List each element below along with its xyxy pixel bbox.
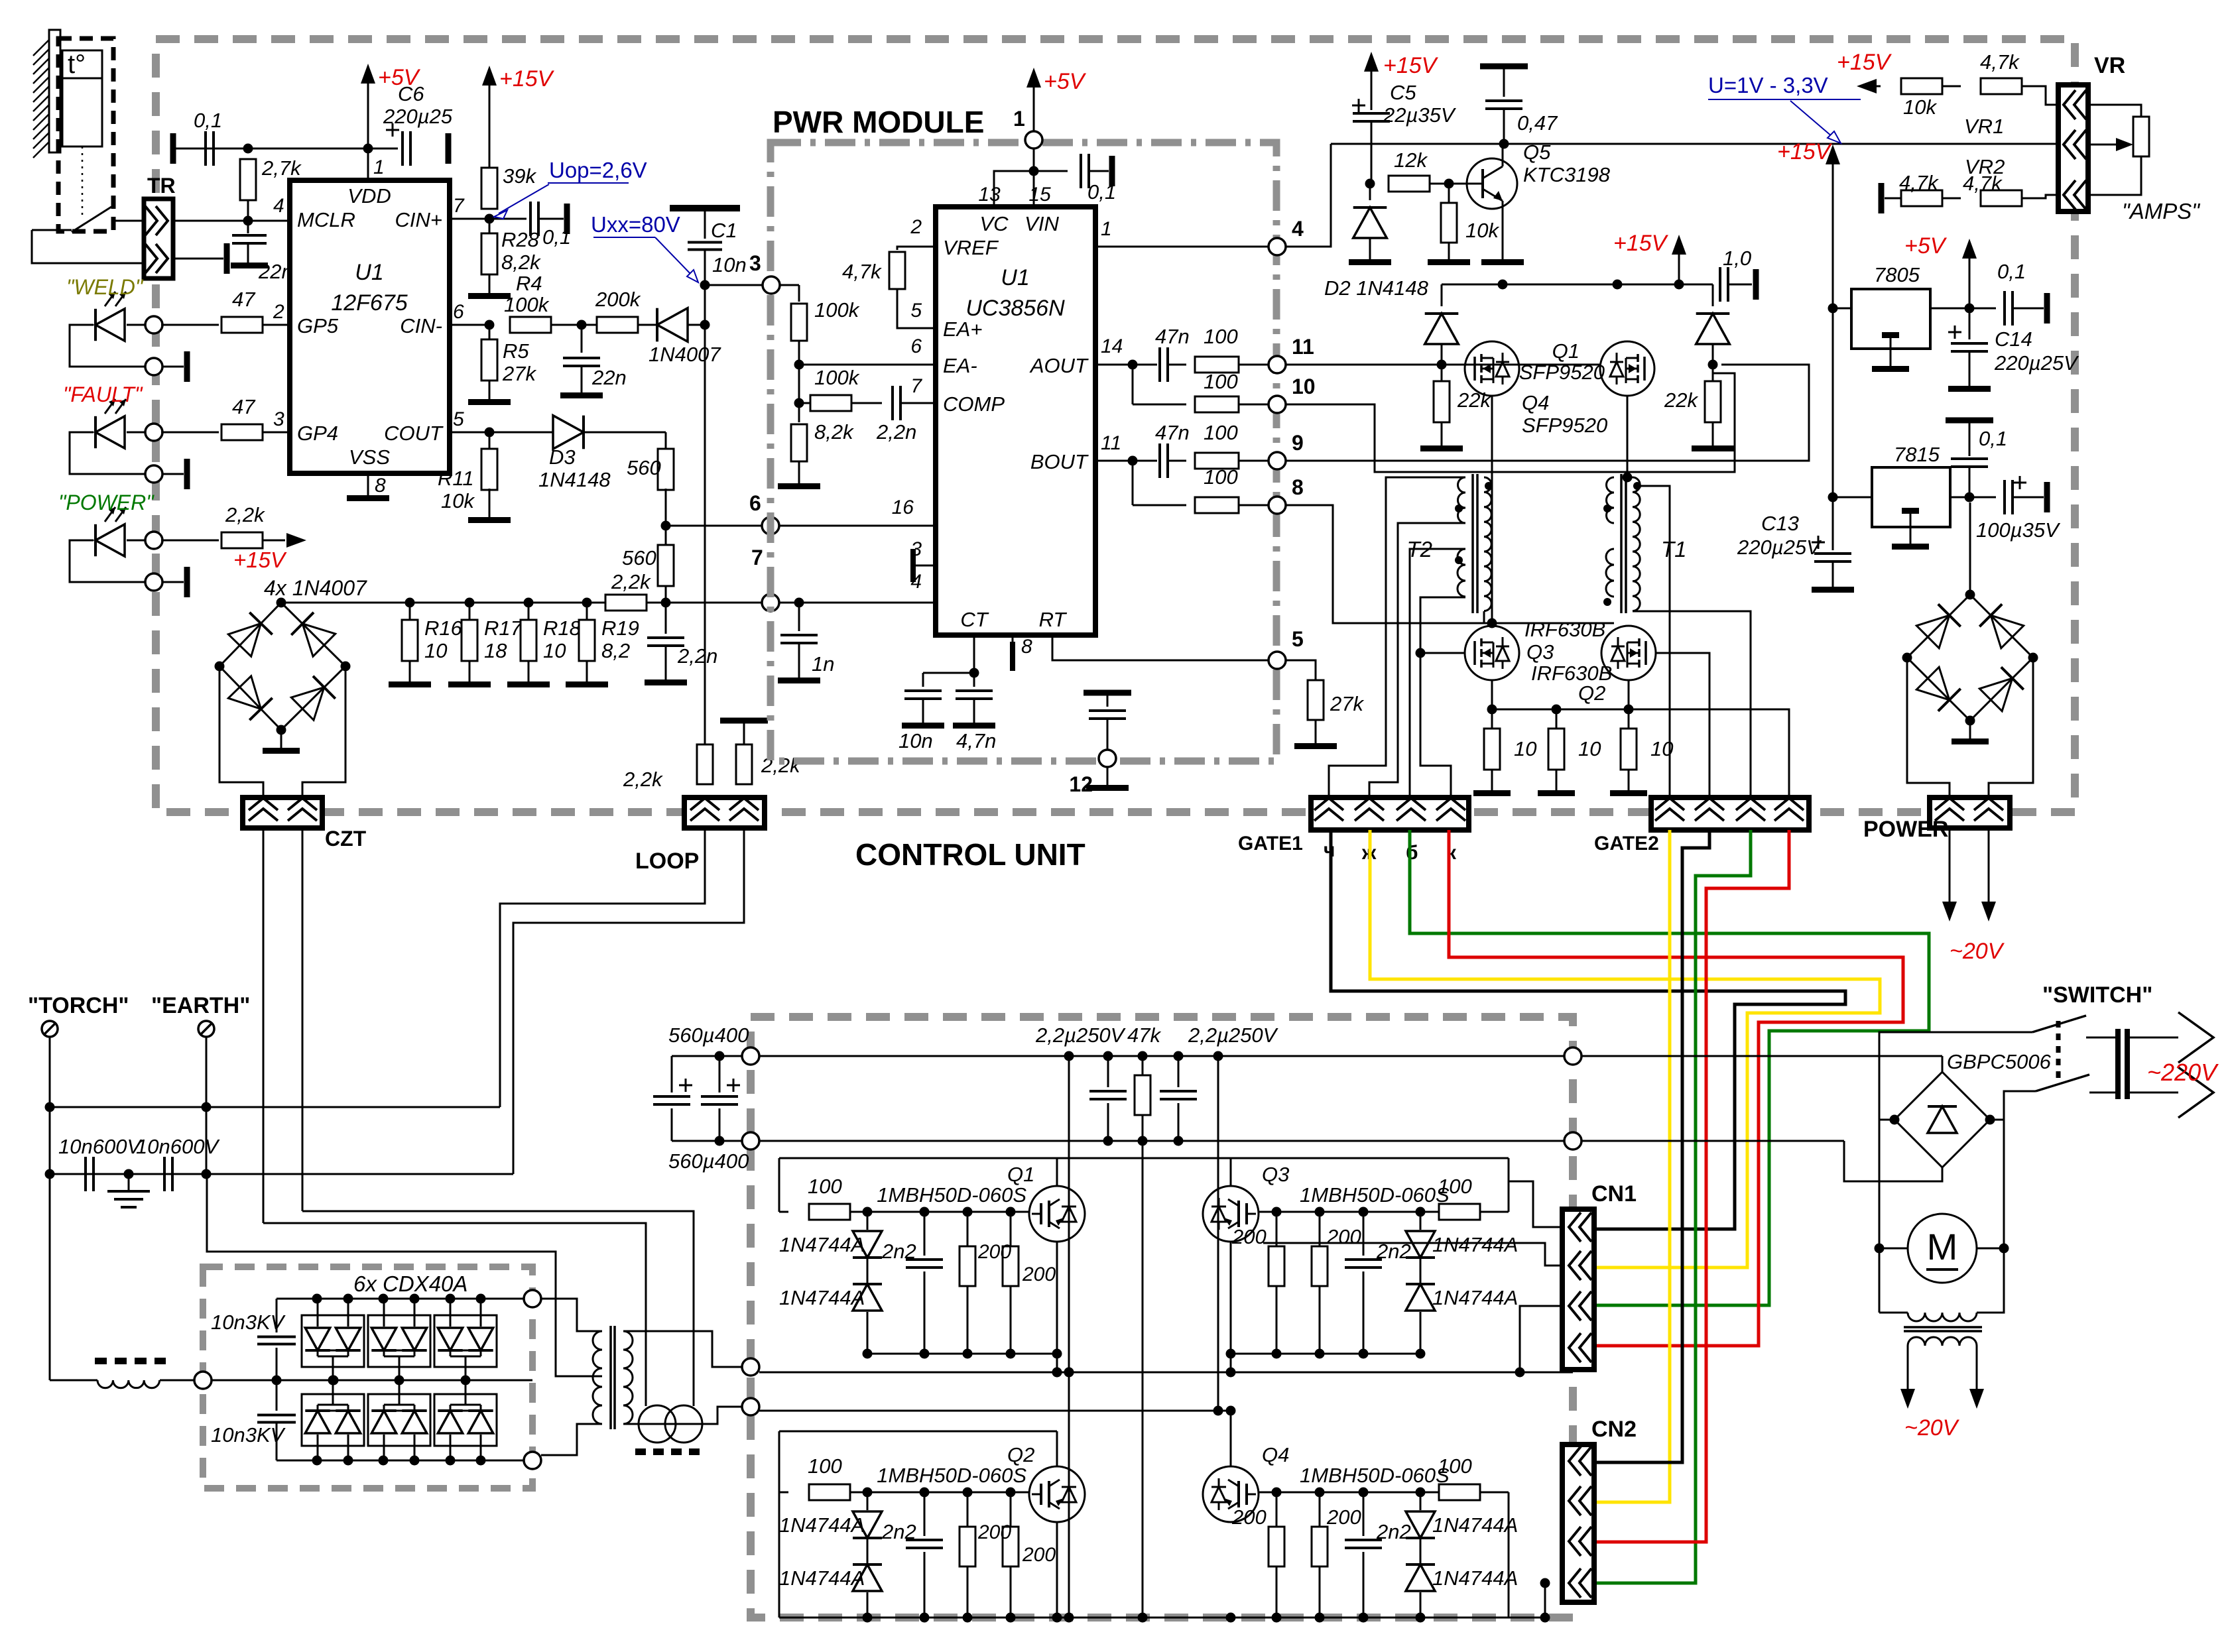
resistor 47 GP5 bbox=[161, 288, 290, 333]
motor M bbox=[1908, 1214, 1977, 1283]
svg-text:200: 200 bbox=[1022, 1544, 1056, 1566]
czt ct wires bbox=[263, 1211, 694, 1406]
wire VDD bbox=[368, 148, 385, 180]
potentiometer AMPS bbox=[2088, 105, 2149, 195]
+5V arrow bbox=[361, 64, 421, 148]
svg-text:1N4744A: 1N4744A bbox=[779, 1233, 865, 1256]
wire 7815 in bbox=[1833, 497, 1872, 499]
svg-text:100: 100 bbox=[1204, 325, 1238, 348]
capacitor 2n2 Q2 bbox=[881, 1492, 943, 1618]
terminal 1 top bbox=[1013, 107, 1042, 148]
connector LOOP bbox=[635, 797, 765, 874]
resistor 10 c bbox=[1610, 709, 1673, 796]
terminal 7 bbox=[751, 546, 779, 611]
cap 10n3KV top bbox=[211, 1299, 296, 1380]
connector CN1 bbox=[1562, 1181, 1637, 1370]
svg-text:100µ35V: 100µ35V bbox=[1976, 518, 2061, 542]
Q5 collector bbox=[1499, 139, 1509, 167]
text ~20V right bbox=[1950, 939, 2005, 964]
svg-text:R28: R28 bbox=[501, 228, 540, 251]
ground bar TR pin2 bbox=[224, 243, 230, 274]
power bridge wire top bbox=[1965, 497, 1975, 600]
resistor R5 27k bbox=[481, 325, 536, 385]
svg-text:560µ400: 560µ400 bbox=[668, 1150, 749, 1173]
pin VREF label bbox=[910, 216, 999, 259]
svg-text:1N4007: 1N4007 bbox=[649, 343, 721, 366]
IC U1 UC3856N box bbox=[936, 207, 1095, 635]
svg-text:D2 1N4148: D2 1N4148 bbox=[1324, 276, 1429, 300]
svg-text:100: 100 bbox=[1438, 1454, 1472, 1478]
diode D2 1N4148 bbox=[1324, 184, 1429, 300]
svg-text:10: 10 bbox=[1514, 737, 1536, 760]
capacitor 2,2n CS bbox=[645, 603, 717, 685]
svg-text:U1: U1 bbox=[1001, 265, 1029, 290]
power out arrows bbox=[1942, 828, 1996, 921]
capacitor 0,1 VIN bbox=[1034, 154, 1116, 204]
svg-text:2n2: 2n2 bbox=[881, 1520, 916, 1543]
svg-text:AOUT: AOUT bbox=[1029, 354, 1089, 377]
terminal 12 bbox=[1069, 690, 1131, 797]
bridge diode d2 bbox=[291, 613, 335, 656]
resistor 200 Q2b bbox=[977, 1492, 1056, 1618]
transistor Q1 SFP9520 bbox=[1600, 341, 1654, 396]
svg-text:POWER: POWER bbox=[1863, 817, 1948, 842]
wire COUT bbox=[450, 428, 504, 438]
svg-text:0,1: 0,1 bbox=[194, 109, 222, 132]
terminal low bbox=[742, 1398, 759, 1415]
svg-text:1MBH50D-060S: 1MBH50D-060S bbox=[1300, 1183, 1450, 1207]
text 22n bbox=[258, 260, 293, 283]
wire TR pin2 to ground bbox=[173, 258, 223, 260]
svg-text:TR: TR bbox=[147, 174, 176, 198]
svg-text:14: 14 bbox=[1101, 335, 1123, 357]
wire gate2 green bbox=[1594, 830, 1751, 1583]
wire TR pin1 to MCLR bbox=[173, 216, 290, 226]
pin MCLR label bbox=[273, 195, 355, 231]
current transformer core dash bbox=[635, 1448, 706, 1455]
vertical bus c bbox=[1213, 1056, 1223, 1416]
svg-text:Q4: Q4 bbox=[1522, 391, 1549, 414]
svg-text:2: 2 bbox=[273, 301, 284, 323]
svg-text:1: 1 bbox=[373, 156, 385, 178]
control unit dashed border bbox=[156, 39, 2075, 812]
svg-text:MCLR: MCLR bbox=[297, 208, 355, 231]
svg-text:R4: R4 bbox=[516, 272, 542, 295]
svg-text:+15V: +15V bbox=[233, 548, 287, 572]
Q3 source rail bbox=[1487, 680, 1634, 715]
resistor R28 8,2k bbox=[481, 219, 541, 274]
annotation Uxx bbox=[591, 212, 698, 282]
svg-text:7: 7 bbox=[751, 546, 763, 569]
vertical bus b bbox=[1138, 1141, 1148, 1623]
svg-text:11: 11 bbox=[1292, 335, 1314, 359]
switch blade lower bbox=[2036, 1075, 2115, 1092]
gate2 feed 2 bbox=[1597, 508, 1709, 797]
IGBT Q3 1MBH50D-060S bbox=[1203, 1163, 1450, 1242]
pin COUT label bbox=[384, 408, 464, 445]
text ~220V bbox=[2147, 1059, 2219, 1086]
pin 1 right bbox=[1101, 218, 1112, 240]
Q4 drain to T2 bbox=[1487, 396, 1497, 628]
wire Uxx to terminal 3 bbox=[705, 284, 763, 286]
svg-text:7805: 7805 bbox=[1874, 263, 1920, 286]
LED FAULT terminal top bbox=[145, 424, 162, 441]
fan transformer secondary bbox=[1908, 1337, 1977, 1395]
svg-text:1N4148: 1N4148 bbox=[538, 468, 611, 491]
plug arrow top bbox=[2130, 1012, 2213, 1063]
svg-text:100k: 100k bbox=[504, 293, 550, 316]
svg-text:t°: t° bbox=[68, 50, 86, 79]
switch feed right bbox=[1990, 1091, 2036, 1120]
svg-text:200: 200 bbox=[1231, 1225, 1267, 1248]
capacitor 10n600V b bbox=[136, 1135, 220, 1191]
svg-text:8,2k: 8,2k bbox=[501, 251, 541, 274]
svg-text:SFP9520: SFP9520 bbox=[1522, 414, 1607, 437]
svg-text:10: 10 bbox=[1578, 737, 1601, 760]
resistor 4,7k VREF bbox=[842, 247, 936, 328]
bridge ground bbox=[263, 730, 300, 754]
svg-text:0,47: 0,47 bbox=[1517, 111, 1558, 135]
BOUT node bbox=[1095, 456, 1157, 466]
svg-text:13: 13 bbox=[978, 184, 1001, 206]
transistor Q4 SFP9520 bbox=[1465, 341, 1519, 396]
capacitor 100u35V bbox=[1976, 476, 2061, 542]
bottom rail extension dots bbox=[1064, 1368, 1074, 1378]
capacitor 1n bbox=[778, 603, 834, 683]
svg-text:C13: C13 bbox=[1761, 512, 1799, 535]
svg-text:39k: 39k bbox=[503, 164, 536, 188]
cdx40a input circle bbox=[194, 1372, 212, 1389]
IC U1 text bbox=[331, 260, 407, 316]
svg-text:4: 4 bbox=[273, 195, 284, 217]
svg-text:U=1V - 3,3V: U=1V - 3,3V bbox=[1708, 73, 1828, 97]
hf transformer secondary bbox=[623, 1331, 742, 1424]
terminal 3 left bbox=[749, 251, 780, 294]
zener 1N4744A d1 bbox=[1406, 1492, 1518, 1538]
svg-text:C5: C5 bbox=[1390, 81, 1416, 104]
capacitor 2,2u250V a bbox=[1035, 1024, 1127, 1141]
pin AOUT label bbox=[1029, 335, 1123, 377]
text Q4 bbox=[1522, 391, 1607, 437]
wire sensor loop lower bbox=[32, 230, 144, 263]
svg-text:3: 3 bbox=[749, 251, 761, 275]
pin EA+ label bbox=[910, 300, 982, 341]
GBPC5006 inner diode bbox=[1928, 1097, 1957, 1133]
ground R28 bbox=[468, 274, 511, 299]
svg-text:Q3: Q3 bbox=[1262, 1163, 1289, 1186]
thermostat dashed box bbox=[58, 38, 113, 231]
svg-text:7: 7 bbox=[453, 195, 465, 217]
Q3 collector loop bbox=[1508, 1158, 1510, 1212]
connector GATE1 bbox=[1238, 797, 1469, 855]
resistor 200 Q1a bbox=[960, 1212, 975, 1354]
zener 1N4744A b2 bbox=[1406, 1259, 1518, 1354]
pwr module border bbox=[771, 143, 1276, 761]
svg-text:"POWER": "POWER" bbox=[58, 491, 155, 514]
svg-text:10k: 10k bbox=[441, 489, 475, 512]
svg-text:R18: R18 bbox=[543, 617, 582, 640]
svg-text:1: 1 bbox=[1013, 107, 1025, 131]
svg-text:RT: RT bbox=[1039, 608, 1068, 631]
rail lower caps bbox=[50, 1173, 513, 1175]
pin EA- label bbox=[910, 335, 977, 377]
svg-text:~220V: ~220V bbox=[2147, 1059, 2219, 1086]
svg-text:2,2k: 2,2k bbox=[611, 570, 651, 593]
capacitor 22n under MCLR bbox=[232, 221, 267, 263]
pin VDD label bbox=[347, 184, 391, 207]
pin CIN+ label bbox=[395, 195, 465, 231]
svg-text:9: 9 bbox=[1292, 431, 1304, 455]
resistor 200k bbox=[595, 288, 641, 333]
power bridge diode 3 bbox=[1916, 667, 1960, 711]
svg-text:8: 8 bbox=[375, 475, 386, 497]
cn1 pin1 wire bbox=[1509, 1181, 1562, 1227]
svg-text:"SWITCH": "SWITCH" bbox=[2042, 982, 2152, 1008]
capacitor C13 220u25V bbox=[1737, 512, 1854, 593]
diode clamp right bbox=[1696, 284, 1730, 365]
svg-text:12k: 12k bbox=[1394, 148, 1428, 172]
svg-text:200: 200 bbox=[1326, 1505, 1361, 1529]
thermostat dotted link bbox=[82, 147, 84, 219]
svg-text:5: 5 bbox=[1292, 627, 1304, 651]
svg-text:VR: VR bbox=[2094, 53, 2125, 78]
chassis ground bbox=[107, 1169, 150, 1208]
wire 9 loop bbox=[1286, 365, 1809, 461]
terminal mid out bbox=[742, 1358, 759, 1376]
terminal 10 bbox=[1269, 375, 1316, 413]
pin VSS label bbox=[349, 445, 390, 469]
regulator 7815 bbox=[1872, 443, 1950, 550]
wire D3 to 560 chain bbox=[584, 432, 666, 449]
svg-text:560: 560 bbox=[627, 456, 661, 479]
wire C5 to D2 node bbox=[1365, 121, 1375, 189]
terminal bar 0,1 CIN+ bbox=[538, 204, 570, 234]
pin BOUT label bbox=[1030, 432, 1121, 473]
svg-text:8,2: 8,2 bbox=[601, 639, 630, 662]
cdx40a bottom circle bbox=[524, 1452, 541, 1469]
LED POWER wiring bbox=[70, 540, 147, 582]
resistor 4,7k VR2-a bbox=[1879, 171, 1943, 213]
svg-text:10: 10 bbox=[543, 639, 566, 662]
wire gate1 black bbox=[1331, 830, 1845, 1229]
bridge diode d3 bbox=[228, 676, 272, 720]
+15V rail vreg bbox=[1777, 139, 1840, 550]
resistor 100k EA- bbox=[791, 298, 860, 341]
switch blade upper bbox=[2032, 1016, 2115, 1037]
svg-text:Q2: Q2 bbox=[1007, 1443, 1034, 1466]
hf transformer primary bbox=[541, 1299, 602, 1455]
svg-text:47: 47 bbox=[232, 288, 256, 311]
svg-text:2,2n: 2,2n bbox=[876, 420, 916, 443]
svg-text:COUT: COUT bbox=[384, 422, 444, 445]
capacitor 2n2 Q1 bbox=[881, 1212, 943, 1354]
wire 11 to gates bbox=[1286, 360, 1718, 370]
svg-text:10n: 10n bbox=[899, 729, 933, 752]
svg-text:Q1: Q1 bbox=[1552, 339, 1580, 363]
+5V arrow vreg bbox=[1904, 233, 1977, 308]
svg-text:4x 1N4007: 4x 1N4007 bbox=[264, 576, 367, 600]
gate2 feed 1 bbox=[1614, 486, 1671, 797]
pin 8 gnd stub bbox=[1010, 635, 1032, 671]
switch gang dotted bbox=[2056, 1021, 2061, 1085]
wire Q4 gate row bbox=[1258, 1488, 1439, 1498]
CS- stub bbox=[910, 549, 936, 582]
cdx40a top circle bbox=[524, 1290, 541, 1307]
diode module top 1 bbox=[302, 1299, 364, 1386]
capacitor 0,1 5V bbox=[1997, 260, 2050, 325]
svg-text:8,2k: 8,2k bbox=[814, 420, 854, 443]
resistor 100 Q2 bbox=[779, 1454, 850, 1500]
svg-text:C1: C1 bbox=[711, 219, 737, 242]
wire top rail bbox=[175, 144, 398, 154]
LED POWER terminal top bbox=[145, 532, 162, 549]
signal wire to VR bbox=[1331, 143, 2058, 145]
zener 1N4744A c2 bbox=[779, 1539, 882, 1618]
terminal bar right C6 bbox=[446, 133, 452, 164]
svg-text:R16: R16 bbox=[424, 617, 463, 640]
diode clamp left bbox=[1425, 284, 1459, 365]
svg-text:0,1: 0,1 bbox=[1979, 427, 2007, 450]
svg-text:LOOP: LOOP bbox=[635, 849, 699, 874]
wire 560a to shutdown node bbox=[661, 489, 671, 531]
svg-text:200: 200 bbox=[1022, 1264, 1056, 1285]
capacitor 2n2 Q4 bbox=[1345, 1492, 1411, 1618]
resistor 10 b bbox=[1538, 709, 1601, 796]
560u caps rails bbox=[672, 1051, 742, 1146]
ground 8,2k bbox=[778, 461, 820, 489]
resistor 200 Q3a bbox=[1231, 1212, 1284, 1354]
svg-text:R19: R19 bbox=[601, 617, 639, 640]
terminal 11 bbox=[1269, 335, 1314, 373]
svg-text:47: 47 bbox=[232, 395, 256, 418]
pot wiper bbox=[2088, 138, 2133, 151]
T1 primary top bbox=[1627, 477, 1633, 479]
wire 12k to base bbox=[1430, 179, 1467, 189]
capacitor 47n A bbox=[1155, 325, 1190, 382]
capacitor 22n CIN- bbox=[560, 325, 627, 398]
resistor 10 a bbox=[1473, 709, 1536, 796]
resistor 200 Q4b bbox=[1312, 1492, 1361, 1618]
bridge diode d4 bbox=[291, 676, 335, 720]
earth column bbox=[202, 1037, 212, 1179]
+15V arrow POWER bbox=[233, 533, 306, 572]
row 8 wiring bbox=[1133, 461, 1269, 513]
connector CZT bbox=[243, 797, 367, 851]
svg-text:"TORCH": "TORCH" bbox=[28, 993, 129, 1018]
wire diode to Uxx rail bbox=[688, 320, 710, 330]
capacitor 1,0 bbox=[1720, 247, 1759, 302]
svg-text:4,7k: 4,7k bbox=[1899, 171, 1939, 194]
svg-text:47n: 47n bbox=[1155, 421, 1190, 444]
wire terminal 8 to T2 bbox=[1286, 505, 1484, 623]
svg-text:12F675: 12F675 bbox=[331, 290, 407, 316]
wire gate1 green bbox=[1410, 830, 1929, 1305]
bus rail top bbox=[759, 1051, 1942, 1061]
capacitor 560u400 b bbox=[668, 1056, 749, 1173]
wire CIN- to node bbox=[450, 320, 495, 330]
CT caps bbox=[899, 635, 996, 752]
svg-text:27k: 27k bbox=[1330, 692, 1364, 715]
LED WELD terminal top bbox=[145, 316, 162, 333]
svg-text:"AMPS": "AMPS" bbox=[2122, 199, 2200, 223]
pin GP5 label bbox=[273, 301, 339, 337]
Q4 collector from rail bbox=[1230, 1411, 1232, 1466]
zener 1N4744A a2 bbox=[779, 1259, 882, 1354]
svg-text:100: 100 bbox=[1204, 465, 1238, 489]
svg-text:47n: 47n bbox=[1155, 325, 1190, 348]
wire gate2 yellow bbox=[1594, 830, 1670, 1502]
resistor 4,7k VR1 bbox=[1942, 50, 2058, 138]
wire 560b to CS node bbox=[661, 585, 671, 608]
svg-text:100k: 100k bbox=[814, 366, 860, 389]
power bridge edges bbox=[1907, 595, 2033, 721]
diode module bottom 3 bbox=[434, 1380, 497, 1460]
gate2 feed 3 bbox=[1603, 560, 1751, 797]
current transformer circles bbox=[639, 1405, 702, 1443]
motor wires bbox=[1879, 1120, 2009, 1254]
wire pin1 to terminal 4 bbox=[1095, 246, 1269, 248]
plug arrow bottom bbox=[2130, 1067, 2213, 1118]
text ~20V fan bbox=[1904, 1415, 1960, 1441]
IGBT Q4 1MBH50D-060S bbox=[1203, 1443, 1450, 1522]
svg-text:VR1: VR1 bbox=[1964, 115, 2004, 138]
Q3 cell bottom rail bbox=[1231, 1349, 1426, 1359]
IGBT Q1 1MBH50D-060S bbox=[877, 1163, 1085, 1242]
resistor 100 Q3 bbox=[1438, 1175, 1509, 1220]
resistor R11 10k bbox=[438, 432, 497, 512]
svg-text:+15V: +15V bbox=[1383, 53, 1439, 78]
+15V arrow driver bbox=[1613, 231, 1686, 284]
motor circuit right bbox=[2003, 1120, 2005, 1313]
cn2 pin4 wire bbox=[1540, 1578, 1550, 1623]
loop wires down bbox=[500, 828, 744, 1174]
svg-text:EA+: EA+ bbox=[943, 318, 982, 341]
wire 100k to EA- bbox=[794, 341, 936, 370]
Q1 collector stub bbox=[1056, 1158, 1058, 1186]
svg-text:22k: 22k bbox=[1457, 388, 1491, 412]
resistor 2,2k loop-a bbox=[623, 744, 713, 791]
svg-text:200: 200 bbox=[977, 1521, 1011, 1543]
mid output rail bbox=[759, 1368, 1573, 1378]
svg-text:2,2k: 2,2k bbox=[761, 754, 801, 777]
motor circuit left bbox=[1875, 1120, 1885, 1313]
zener 1N4744A d2 bbox=[1406, 1539, 1518, 1618]
svg-text:27k: 27k bbox=[502, 362, 536, 385]
pin CIN- label bbox=[400, 301, 464, 337]
capacitor 560u400 a bbox=[653, 1024, 749, 1141]
resistor 200 Q1b bbox=[977, 1212, 1056, 1354]
resistor 12k bbox=[1389, 148, 1430, 192]
ac wire 2 bbox=[1844, 1141, 1942, 1181]
svg-text:100: 100 bbox=[1438, 1175, 1472, 1198]
svg-text:2,7k: 2,7k bbox=[261, 156, 302, 180]
svg-text:18: 18 bbox=[484, 639, 507, 662]
svg-text:GP5: GP5 bbox=[297, 314, 339, 337]
pin CS- label bbox=[910, 538, 978, 578]
resistor 200 Q4a bbox=[1231, 1492, 1284, 1618]
text SWITCH bbox=[2042, 982, 2152, 1008]
svg-text:4,7k: 4,7k bbox=[842, 260, 882, 283]
resistor 560 b bbox=[622, 526, 674, 586]
thermostat hatched wall bbox=[33, 30, 60, 158]
pin SHUTDOWN label bbox=[892, 497, 1065, 538]
pin COMP label bbox=[910, 375, 1005, 416]
svg-text:10n3KV: 10n3KV bbox=[211, 1423, 286, 1446]
wire R4 to 200k node bbox=[551, 320, 597, 330]
svg-text:100: 100 bbox=[1204, 370, 1238, 393]
T1 primary bottom bbox=[1492, 611, 1633, 623]
svg-text:Q1: Q1 bbox=[1007, 1163, 1034, 1186]
